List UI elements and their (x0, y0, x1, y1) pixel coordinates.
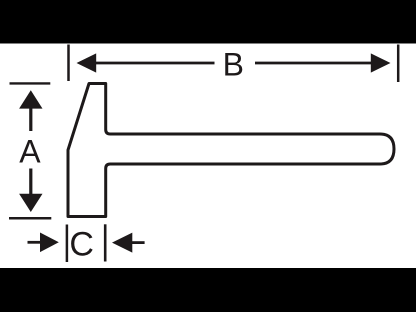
dimension A upper stem (29, 107, 32, 131)
dimension A lower stem (29, 169, 32, 196)
dimension C left extension tick (66, 225, 69, 263)
dimension A bottom extension tick (9, 217, 51, 220)
svg-text:C: C (69, 226, 94, 264)
dimension C right arrowhead (112, 233, 132, 253)
hammer outline (68, 84, 394, 217)
dimension B left arrowhead (77, 53, 97, 72)
top black bar (0, 0, 416, 44)
dimension B line left segment (95, 62, 215, 65)
dimension C right extension tick (104, 224, 107, 261)
svg-text:A: A (19, 133, 41, 169)
svg-text:B: B (223, 46, 244, 82)
dimension B right extension tick (397, 45, 400, 83)
dimension B line right segment (255, 62, 372, 65)
dimension B left extension tick (67, 45, 70, 82)
dimension A down arrowhead (19, 194, 42, 212)
dimension A top extension tick (10, 82, 51, 84)
dimension A up arrowhead (19, 90, 42, 108)
dimension B right arrowhead (371, 53, 391, 72)
dimension C left arrow tail (28, 241, 42, 244)
dimension C right arrow tail (131, 241, 145, 244)
bottom black bar (0, 268, 416, 312)
dimension C left arrowhead (40, 233, 59, 253)
